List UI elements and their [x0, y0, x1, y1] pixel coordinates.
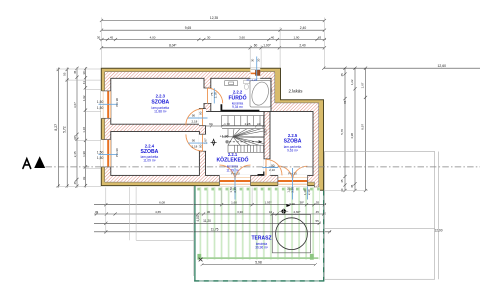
terrace hatch end squares [197, 254, 201, 260]
door arc 2.2.5 [266, 159, 282, 175]
bottom dim row A 6,08 / 1,60 ... [94, 203, 326, 206]
double door arcs 2.2.5 terrace door [278, 166, 308, 181]
top dim row 2 line 9,65 / 2,40 [100, 29, 326, 32]
room label 2.2.3 szoba [151, 94, 169, 114]
top window blue dim [256, 57, 258, 81]
svg-text:90: 90 [271, 164, 275, 168]
door arc 2.2.3 [186, 109, 203, 126]
svg-text:1,70: 1,70 [224, 122, 230, 126]
fürdő door blue dim [213, 88, 215, 103]
svg-text:9,34 m²: 9,34 m² [232, 105, 243, 109]
door arc fürdő [208, 88, 223, 103]
bathtub [249, 80, 271, 107]
svg-text:1,50: 1,50 [97, 150, 104, 154]
svg-text:10: 10 [257, 122, 261, 126]
svg-text:90: 90 [192, 139, 196, 143]
room label 2.2.2 fürdő [228, 90, 246, 110]
door 2.2.3 blue dim 90 / 2,18 [188, 117, 208, 119]
section letter A [23, 159, 31, 169]
svg-text:2,10: 2,10 [307, 189, 311, 195]
section line A-A [23, 156, 480, 168]
svg-text:43: 43 [318, 35, 322, 39]
svg-text:45: 45 [110, 35, 114, 39]
svg-text:45: 45 [350, 184, 354, 188]
stairs winder fan [228, 129, 264, 146]
svg-text:30: 30 [340, 188, 344, 192]
room label 2.2.1 közlekedő [217, 152, 249, 173]
left dim line 55 / 5,72 [66, 68, 69, 188]
window gap bottom wall közlekedő [220, 175, 251, 186]
svg-text:1,50: 1,50 [97, 156, 104, 160]
window W1 left wall graphic [102, 91, 111, 118]
stair railing thick line [221, 104, 259, 110]
svg-text:30: 30 [251, 58, 255, 62]
svg-text:2.2.3: 2.2.3 [156, 94, 166, 99]
terrace bottom border dashed double [194, 280, 324, 282]
left dim line 45/3,67/30/2,45/45 [75, 67, 78, 188]
svg-text:SZOBA: SZOBA [151, 99, 169, 105]
svg-text:3,67: 3,67 [73, 102, 77, 108]
svg-text:2,20: 2,20 [233, 187, 237, 193]
terrace door blue dim [292, 168, 294, 200]
terrace hatch top feet [199, 188, 319, 191]
window gap top wall fürdő [250, 68, 260, 79]
door jamb caps [199, 88, 271, 159]
bottom dims extension lines [106, 188, 252, 234]
svg-text:45: 45 [340, 179, 344, 183]
bottom dim row D 11,75 [94, 230, 331, 233]
svg-text:2,20: 2,20 [291, 187, 295, 193]
svg-text:55: 55 [63, 72, 67, 76]
svg-text:30*: 30* [73, 135, 77, 140]
svg-text:45: 45 [73, 181, 77, 185]
svg-text:45: 45 [73, 70, 77, 74]
outer insulated wall band (tan) [101, 68, 323, 190]
room label 2.2.4 szoba [140, 143, 158, 162]
top dim row 1 line 12,35 [100, 19, 326, 22]
svg-text:2.lakás: 2.lakás [289, 88, 304, 93]
svg-text:8,97: 8,97 [361, 124, 365, 130]
door/window gap bottom wall 2.2.5 to terrace [278, 175, 308, 186]
door opening gap 2.2.5 [264, 159, 271, 175]
cad point marker blob [279, 208, 288, 214]
svg-text:40: 40 [271, 35, 275, 39]
svg-text:30: 30 [207, 35, 211, 39]
svg-text:3,93: 3,93 [264, 129, 268, 135]
svg-text:4,98: 4,98 [350, 133, 354, 139]
svg-text:TERASZ: TERASZ [252, 236, 272, 242]
stair walk line with arrow [229, 141, 260, 143]
svg-text:45: 45 [316, 210, 320, 214]
door 2.2.4 blue dim 90 / 2,18 [188, 142, 208, 144]
room 2.2.5 interior [270, 112, 313, 176]
svg-text:45: 45 [343, 100, 347, 104]
svg-text:36,96 m²: 36,96 m² [255, 246, 268, 250]
svg-text:8,04*: 8,04* [169, 44, 177, 48]
svg-text:3,60: 3,60 [239, 35, 245, 39]
svg-text:55: 55 [316, 201, 320, 205]
svg-text:2,45: 2,45 [73, 151, 77, 157]
svg-text:9,63 m²: 9,63 m² [287, 149, 298, 153]
svg-text:30: 30 [82, 71, 86, 75]
left dims extension lines [56, 69, 101, 187]
bottom dim row B 45 / 4,65 ... [94, 212, 326, 215]
right dim line C 1,67/8,97 [364, 68, 367, 192]
left dim line 8,27 [57, 68, 60, 188]
room label 2.2.5 szoba [284, 133, 302, 153]
terrace dim 5,98 [201, 263, 317, 266]
svg-text:93: 93 [82, 176, 86, 180]
svg-text:11,20: 11,20 [203, 219, 211, 223]
door opening gap fürdő [204, 88, 212, 103]
svg-text:2.2.2: 2.2.2 [233, 90, 243, 95]
svg-text:2.2.1: 2.2.1 [228, 152, 238, 157]
left dim line 30/41/1,92/1,18/1,90/93 [84, 67, 87, 187]
right dim line A 45/5,70/30 [343, 68, 346, 192]
svg-text:2,10: 2,10 [269, 168, 275, 172]
svg-text:5,72: 5,72 [63, 126, 67, 133]
stairs lower flight treads [228, 145, 264, 152]
svg-text:1,22: 1,22 [350, 79, 354, 85]
WC [244, 80, 250, 89]
room 2.2.4 interior [111, 132, 200, 176]
level marker diamond [211, 139, 217, 145]
stairs dim line 90|2,28|10 [206, 125, 267, 128]
svg-text:30: 30 [256, 58, 260, 62]
svg-text:1,60: 1,60 [231, 201, 237, 205]
svg-text:2,18: 2,18 [214, 92, 218, 98]
hot tub circle [276, 218, 308, 250]
window gap left wall bottom [101, 140, 111, 167]
terrace right border dashed [323, 191, 325, 282]
stairs upper flight treads [222, 116, 264, 126]
terrace green hatch area [196, 187, 320, 259]
terrace hatch bottom connector [198, 257, 318, 259]
svg-text:2,60*: 2,60* [293, 210, 301, 214]
stairs middle flight band [222, 129, 264, 137]
walk line start circle [225, 140, 228, 143]
twin vertical lines below building [130, 186, 195, 276]
svg-text:45: 45 [95, 210, 99, 214]
dark corner marks at közlekedő bottom right [258, 174, 265, 176]
terrace left border [194, 186, 196, 282]
svg-text:1,92: 1,92 [82, 95, 86, 101]
svg-text:4,65: 4,65 [155, 210, 161, 214]
bath counter with sink [225, 81, 238, 86]
svg-text:6,08: 6,08 [159, 201, 165, 205]
svg-text:2.2.4: 2.2.4 [145, 143, 155, 148]
svg-text:3,30: 3,30 [237, 210, 243, 214]
neighbour terrace right double edge [438, 152, 440, 280]
svg-text:1,18: 1,18 [82, 127, 86, 133]
window W1 blue dim [99, 103, 118, 105]
brick hatch wall core [105, 72, 319, 187]
svg-text:9,65: 9,65 [185, 26, 192, 30]
bottom dim row C 11,20 [94, 222, 321, 225]
svg-text:45: 45 [340, 73, 344, 77]
door arc 2.2.4 [186, 134, 203, 151]
bottom window blue dim [234, 168, 236, 200]
right dim line B 1,22/4,98/45 [353, 68, 356, 192]
svg-text:41: 41 [82, 81, 86, 85]
double door arcs közlekedő terrace door [220, 165, 251, 181]
window bottom wall közlekedő graphic [220, 175, 251, 185]
top dim extension lines [102, 18, 325, 68]
row A right arrowhead [286, 204, 290, 207]
svg-text:1,67: 1,67 [361, 82, 365, 88]
window W2 blue dim [99, 154, 118, 156]
room 2.2.2 fürdő interior [211, 78, 271, 111]
neighbour dim line 12,00 [325, 228, 435, 230]
walk line arrow head [259, 140, 263, 143]
section marker A triangle [34, 156, 45, 168]
svg-text:90: 90 [198, 111, 202, 115]
svg-text:30: 30 [97, 35, 101, 39]
svg-text:5,70: 5,70 [340, 129, 344, 135]
room 2.2.1 közlekedő interior [206, 112, 265, 176]
svg-text:1,93*: 1,93* [264, 201, 272, 205]
svg-text:+1,96: +1,96 [220, 134, 229, 138]
svg-text:12,60: 12,60 [438, 64, 447, 68]
svg-text:1,90: 1,90 [293, 35, 299, 39]
svg-text:3,96: 3,96 [289, 202, 295, 206]
svg-text:Pm 20: Pm 20 [288, 172, 297, 176]
svg-text:55: 55 [316, 219, 320, 223]
svg-text:SZOBA: SZOBA [284, 139, 302, 145]
svg-text:Pm 90: Pm 90 [115, 98, 119, 107]
right top dim line 12,60 [324, 67, 480, 69]
svg-text:12,00: 12,00 [435, 228, 443, 232]
svg-text:11,09 m²: 11,09 m² [143, 159, 155, 163]
door opening gap 2.2.3 [199, 109, 206, 126]
svg-text:Pm 1,20: Pm 1,20 [247, 78, 258, 82]
svg-text:1,90: 1,90 [82, 151, 86, 157]
window gap left wall top [101, 91, 111, 118]
svg-text:KÖZLEKEDŐ: KÖZLEKEDŐ [217, 157, 249, 164]
svg-text:4,00: 4,00 [196, 215, 200, 221]
room 2.2.3 interior [111, 78, 204, 124]
svg-text:90: 90 [192, 114, 196, 118]
svg-text:5,98: 5,98 [255, 260, 262, 264]
svg-text:30: 30 [207, 210, 211, 214]
svg-text:60: 60 [254, 44, 258, 48]
terrace label [252, 236, 272, 250]
small x marker at hatch corner [199, 258, 203, 262]
svg-text:1,00*: 1,00* [263, 44, 271, 48]
svg-text:2,40: 2,40 [300, 26, 307, 30]
top dim row 3 small segments [99, 38, 326, 41]
svg-text:12,35: 12,35 [210, 16, 218, 20]
svg-text:1,94: 1,94 [270, 88, 274, 94]
svg-text:90: 90 [198, 144, 202, 148]
svg-text:2.2.5: 2.2.5 [288, 133, 298, 138]
svg-text:11,75: 11,75 [211, 228, 219, 232]
svg-text:Pm 90: Pm 90 [115, 148, 119, 157]
svg-text:2,18: 2,18 [191, 145, 197, 149]
svg-text:90: 90 [209, 122, 213, 126]
window W2 left wall graphic [102, 140, 111, 167]
window top wall fürdő graphic [251, 69, 260, 75]
svg-text:2,18: 2,18 [191, 120, 197, 124]
svg-text:8,27: 8,27 [54, 124, 58, 131]
svg-text:10: 10 [269, 210, 273, 214]
svg-text:1,50: 1,50 [97, 106, 104, 110]
svg-text:1,50: 1,50 [97, 100, 104, 104]
svg-text:Pm 20: Pm 20 [231, 172, 240, 176]
neighbour terrace outline [325, 152, 435, 280]
top dim row 4 line 8,04 / 60 / 1,00 / 2,40 [100, 46, 326, 49]
door opening gap 2.2.4 [199, 134, 206, 151]
svg-text:2,40: 2,40 [299, 44, 305, 48]
svg-text:4,00: 4,00 [150, 35, 156, 39]
svg-text:11,88 m²: 11,88 m² [154, 110, 166, 114]
hot tub square [272, 215, 310, 253]
terrace door bottom wall 2.2.5 graphic [278, 175, 308, 185]
svg-text:2,28: 2,28 [245, 122, 251, 126]
door 2.2.5 blue dim [262, 167, 278, 169]
right dims extension line [325, 190, 369, 192]
terrace door jamb blue dim [307, 187, 309, 200]
